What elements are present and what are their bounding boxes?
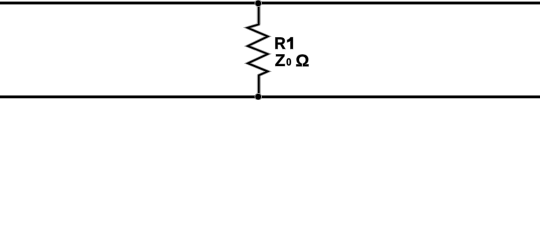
wire: bottom rail (full width): [0, 95, 540, 99]
wire: resistor bottom lead: [257, 75, 261, 97]
wire: top rail (full width): [0, 1, 540, 5]
junction dot: bottom node: [255, 93, 262, 100]
value label: letter Z: [275, 54, 284, 66]
junction dot: top node: [255, 0, 262, 7]
wire: resistor top lead: [257, 3, 261, 24]
value label: subscript 0: [287, 58, 291, 65]
label R1: digit 1: [287, 37, 293, 49]
value label: ohm symbol: [296, 55, 308, 67]
resistor R1 zigzag body: [248, 3, 268, 96]
label R1: letter R: [275, 37, 285, 49]
